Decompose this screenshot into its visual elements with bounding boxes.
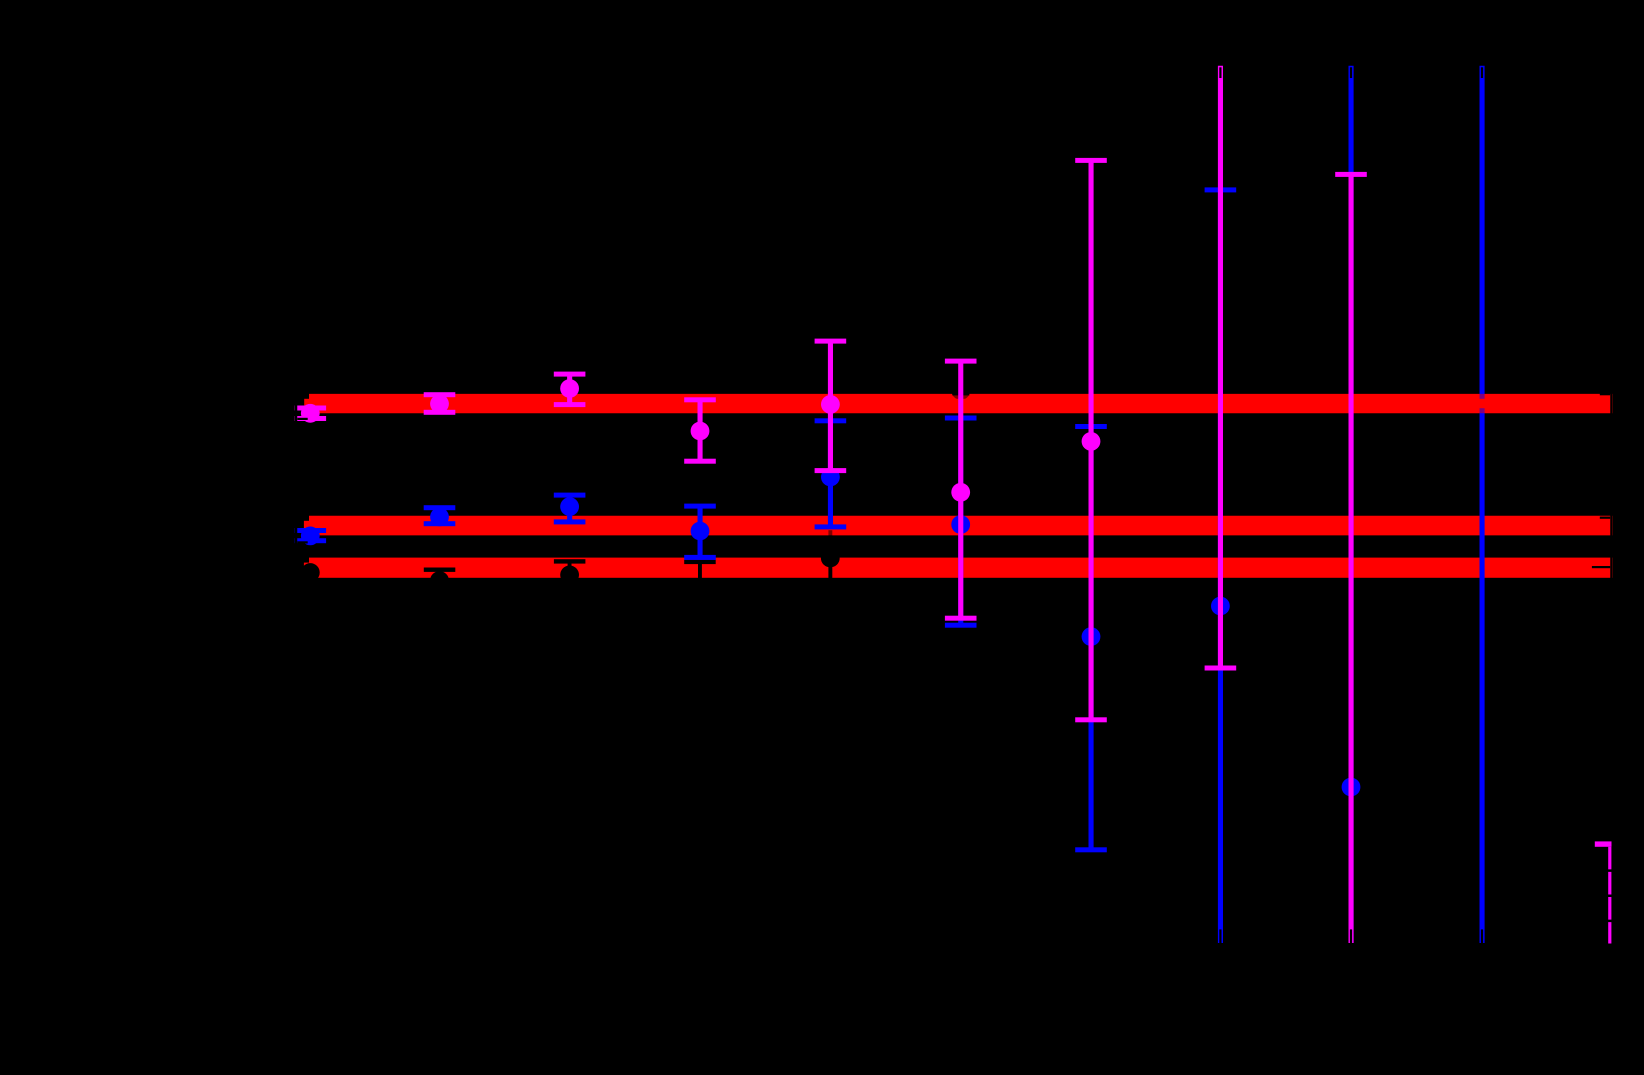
black marker point 1 on band 3 — [301, 563, 320, 582]
blue series point 6 group — [945, 416, 977, 628]
red band 1 (top) base fill — [309, 394, 1613, 413]
blue series point 2 group — [424, 505, 456, 526]
magenta series point 5 group — [815, 339, 847, 474]
black error line point 3 — [568, 561, 572, 575]
red band 2 (middle) base fill — [309, 516, 1613, 536]
y-axis ticks left and right (black) — [297, 319, 1610, 939]
x-axis ticks top and bottom (black) — [309, 67, 1483, 943]
black error line point 4 — [698, 562, 702, 588]
magenta series point 6 group — [945, 359, 977, 621]
black marker point 6 top sliver over band edge — [952, 394, 969, 396]
red band 2 translucent overlay — [309, 516, 1613, 536]
blue series point 9 group — [1342, 65, 1361, 944]
red band 3 center line (with left bump) — [304, 563, 1613, 572]
magenta limit step line horizontal segment — [1595, 841, 1612, 846]
red band 3 (bottom) base fill — [309, 558, 1613, 578]
blue series point 4 group — [684, 504, 716, 560]
black error line point 5 — [828, 530, 832, 590]
magenta series point 3 group — [554, 372, 586, 408]
blue series point 5 group — [815, 418, 847, 529]
magenta limit step line vertical dashed segment — [1608, 847, 1611, 944]
blue series point 1 group — [295, 527, 327, 546]
red band 1 center line (with left bump) — [304, 399, 1613, 408]
magenta series point 8 group — [1205, 65, 1237, 671]
magenta series point 1 group — [295, 404, 327, 423]
black error cap top point 4 — [684, 560, 716, 564]
axis frame (black) — [296, 65, 1612, 945]
magenta series point 7 group — [1075, 158, 1107, 722]
black marker point 6 at band 1 edge — [951, 381, 970, 400]
black error cap top point 2 — [424, 568, 456, 572]
magenta series point 2 group — [424, 392, 456, 415]
black marker point 3 — [560, 566, 579, 585]
blue series point 3 group — [554, 493, 586, 525]
red band 2 center line (with left bump) — [304, 521, 1613, 530]
blue series point 7 group — [1075, 424, 1107, 852]
magenta series point 4 group — [684, 397, 716, 463]
black marker point 5 on band 3 — [821, 549, 840, 568]
magenta series point 9 group — [1335, 172, 1367, 943]
blue series point 10 group — [1480, 65, 1485, 944]
red band 1 translucent overlay — [309, 394, 1613, 413]
black error cap top point 3 — [554, 559, 586, 563]
black marker point 2 — [430, 571, 449, 590]
blue series point 8 group — [1205, 187, 1237, 943]
